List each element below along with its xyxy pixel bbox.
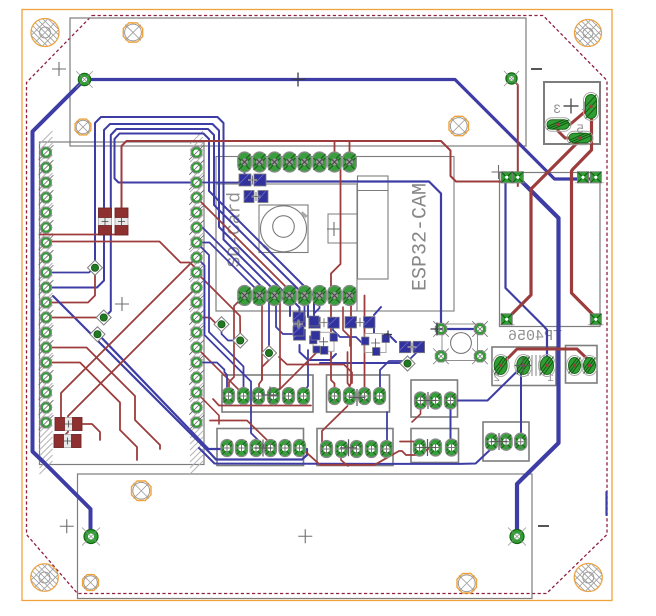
wire red res join (105, 230, 122, 235)
text SD-Card (226, 192, 246, 268)
wire red d4 in (197, 318, 221, 325)
tact switch outline (442, 324, 478, 361)
wire blue d4 link (222, 324, 239, 340)
connector block B outline (327, 375, 390, 412)
wire blue cluster 3 (374, 307, 381, 315)
origin cross A (262, 387, 279, 404)
via top-left (76, 71, 92, 87)
wire red d6 out (262, 353, 269, 380)
wire red under A (210, 421, 267, 449)
wire blue C3-F3 (450, 401, 452, 448)
wire blue A1 feed (197, 363, 228, 396)
transistor Q1 (310, 332, 338, 354)
camera connector divider (358, 190, 389, 192)
top battery holder outline (70, 18, 526, 146)
connector block C outline (411, 380, 458, 417)
wire blue G path (521, 366, 523, 442)
battery connector pad 1 (584, 93, 599, 121)
text TP4056 (mirrored) (508, 328, 562, 345)
wire red sd diag (197, 348, 241, 397)
smd small pads b (309, 316, 320, 353)
2-pad module pads (567, 356, 598, 376)
wire red diag B (58, 288, 197, 442)
smd small cluster a (293, 312, 304, 336)
wire blue cluster 1 (300, 345, 337, 360)
crystal stripes (528, 355, 544, 376)
2-pad module outline (566, 346, 598, 384)
plus mark battery conn (564, 99, 579, 114)
connector E pads (321, 441, 393, 458)
connector B pads (329, 388, 386, 405)
wire blue diag bl 2 (98, 334, 222, 449)
wire blue E5 feed (386, 412, 388, 449)
wire blue battery top (85, 80, 597, 180)
origin cross cluster (384, 331, 392, 339)
wire red diag A (61, 258, 197, 425)
battery connector outline (544, 82, 600, 144)
mounting hole top-right (575, 20, 602, 47)
via bottom-right (508, 528, 526, 546)
wire blue cluster 2 (374, 322, 396, 342)
left header hatch strip (40, 131, 53, 474)
wire red E2 stub (341, 449, 348, 466)
origin cross D (255, 440, 272, 457)
wire blue crystal-C (452, 366, 523, 401)
camera lens circle (261, 206, 308, 252)
connector block A outline (222, 375, 313, 412)
capacitor C2 (309, 317, 340, 328)
wire blue battery right (517, 178, 559, 535)
capacitor C1 (294, 316, 306, 340)
origin cross switch (431, 323, 444, 336)
wire blue diag bl 1 (53, 296, 307, 460)
TP4056 module outline (500, 173, 601, 327)
mounting hole tr small (449, 116, 469, 135)
wire blue J1 (197, 243, 244, 396)
header J1 left column pads (39, 145, 54, 430)
wire red to via d5 (197, 273, 241, 339)
wire red B2 feed (348, 352, 350, 398)
wire blue arch 3 (106, 129, 308, 317)
resistor R3 (55, 418, 82, 431)
mounting pad bl small (83, 575, 99, 591)
wire red bl res (83, 424, 100, 440)
grid cross 3 (327, 222, 341, 236)
crystal module outline (492, 347, 556, 386)
via d7 (400, 356, 415, 371)
via d3 (88, 260, 103, 275)
wire red col 362 (46, 363, 137, 461)
svg-text:TP4056: TP4056 (508, 328, 562, 345)
mounting hole bl inner (132, 481, 152, 501)
wire red right a (507, 140, 580, 319)
capacitor C3 (345, 317, 375, 328)
transistor Q2 (362, 334, 390, 356)
wire red conn bat1 (559, 107, 591, 125)
via d5 (233, 333, 248, 348)
wire red A4 feed (275, 296, 281, 396)
mounting hole bottom-right (574, 564, 602, 592)
wire red res top (40, 234, 105, 236)
mounting hole top-mid (123, 23, 142, 42)
via d1 (96, 310, 111, 325)
wire red row stub1 (334, 141, 336, 162)
TP4056 pads bottom (499, 314, 604, 325)
origin cross G (491, 433, 508, 450)
grid cross 6 (298, 529, 312, 543)
SD card socket outline (216, 184, 357, 311)
grid cross 2 (291, 73, 305, 87)
crystal pads (492, 355, 555, 377)
origin cross F (419, 439, 436, 456)
minus mark bottom right (538, 525, 549, 527)
wire red under E (302, 448, 431, 465)
capacitor C4 (399, 341, 424, 352)
wire blue sd c33 (197, 243, 270, 350)
wire red C down (412, 401, 421, 423)
origin cross C (420, 392, 437, 409)
origin cross B (349, 389, 366, 406)
wire blue switch top (441, 328, 480, 330)
connector block G outline (483, 422, 529, 461)
svg-text:ESP32-CAM: ESP32-CAM (410, 183, 433, 291)
left header module outline (40, 142, 205, 465)
wire blue arch 4 (115, 134, 315, 317)
wire red cl v (343, 307, 350, 346)
right header hatch strip (190, 131, 203, 474)
ESP32-CAM module outline (216, 157, 454, 312)
battery connector pad 3 (545, 118, 571, 132)
text 5 (mirrored) (576, 122, 584, 137)
wire blue battery left (33, 80, 91, 535)
wire blue under DE (199, 442, 492, 464)
wire blue row stub a (304, 296, 306, 317)
bottom battery holder outline (78, 474, 533, 599)
wire blue arch 1 (95, 117, 290, 316)
wire red A1 feed (229, 296, 245, 396)
connector D pads (221, 440, 306, 457)
connector G pads (486, 433, 527, 450)
grid cross 7 (115, 297, 129, 311)
wire blue row stub b (314, 296, 320, 314)
wire blue cluster 4 (320, 362, 406, 364)
wire blue sd 5 (197, 180, 246, 183)
TP4056 pads top (499, 172, 604, 183)
camera connector narrow outline (358, 176, 389, 279)
wire red F pads left (400, 442, 420, 447)
resistor R1 (99, 208, 112, 235)
svg-text:3: 3 (553, 102, 561, 117)
connector block D outline (217, 429, 304, 466)
wire red A3 feed (259, 296, 262, 396)
wire red crystal top (501, 349, 590, 366)
wire red row stub2 (349, 141, 351, 162)
wire blue sd c25 (197, 228, 293, 335)
battery connector pad 5 (567, 131, 593, 145)
resistor R2 (115, 208, 128, 235)
origin cross crystal (515, 357, 532, 374)
wire blue pad to via d3 (46, 269, 94, 273)
wire red middle v2 (350, 296, 352, 398)
wire red middle v1 (331, 162, 341, 398)
text 2 small (mirrored) (493, 373, 500, 385)
ESP32-CAM top pad row (238, 152, 356, 172)
connector block F outline (411, 429, 459, 463)
wire blue right edge (605, 492, 607, 515)
via d4 (214, 317, 229, 332)
wire red conn bat2 (558, 128, 580, 138)
text ESP32-CAM (410, 183, 433, 291)
mounting hole top-left (31, 19, 59, 47)
connector C pads (415, 392, 457, 409)
wire red via top (512, 79, 518, 187)
tact switch S1 pads (433, 321, 488, 364)
wire red A4 diag (277, 352, 317, 392)
wire blue B4 feed (380, 351, 418, 398)
capacitor C6 pair (244, 191, 268, 203)
wire blue cluster 5 (333, 322, 362, 343)
wire blue tp down (506, 178, 548, 366)
wire blue pad1 stub (244, 170, 247, 180)
via d2 (90, 327, 105, 342)
wire red B-E diag (322, 406, 348, 448)
connector block E outline (317, 429, 393, 466)
wire red col 347 (46, 348, 160, 450)
mounting hole br inner (457, 574, 477, 594)
mounting hole bottom-left (31, 564, 59, 592)
via d6 (262, 346, 277, 361)
connector F pads (414, 439, 458, 456)
connector A pads (223, 388, 310, 405)
text 1 (mirrored) (581, 99, 589, 114)
SD detect sub-outline (328, 214, 358, 243)
grid cross 1 (52, 62, 66, 76)
via top-right (504, 71, 519, 86)
ESP32-CAM bottom pad row (238, 286, 356, 306)
wire red right b (572, 112, 596, 317)
grid cross 4 (492, 165, 506, 179)
wire blue A6 feed (306, 350, 308, 396)
wire red H mesh (279, 357, 352, 383)
header J1 right column pads (189, 145, 204, 430)
capacitor C5 pair (239, 174, 266, 186)
mounting pad tl small (75, 119, 91, 135)
wire red horiz 241 (44, 242, 197, 273)
wire blue arch 2 (46, 124, 300, 316)
wire red left col 1 (46, 317, 101, 319)
text 1 small (mirrored) (547, 373, 554, 385)
wire blue C5 to switch (260, 180, 441, 329)
origin cross E (340, 439, 357, 456)
resistor R4 (54, 435, 81, 448)
minus mark top right (531, 68, 542, 70)
grid cross 5 (60, 519, 74, 533)
wire red pad to via d3 (46, 270, 95, 303)
tact switch button circle (451, 333, 472, 354)
wire red middle v3 (364, 296, 366, 398)
wire red pad392 diag (197, 393, 220, 425)
camera lens housing (259, 205, 308, 253)
text 3 (mirrored) (553, 102, 561, 117)
wire red main top (122, 141, 507, 210)
wire blue J2 (197, 258, 271, 449)
wire red across A (213, 399, 311, 406)
wire red diag C (197, 198, 290, 296)
via bottom-left (82, 528, 100, 546)
